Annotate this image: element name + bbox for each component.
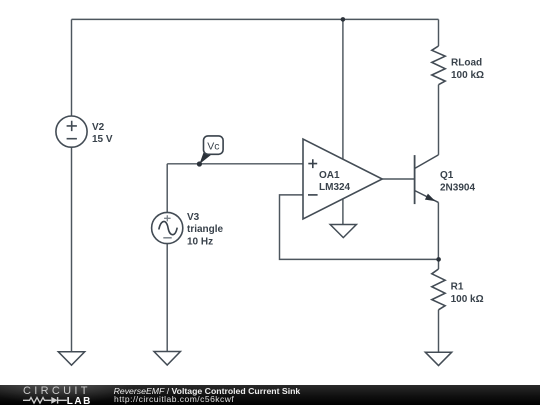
ground (V2) [58,352,84,365]
transistor Q1 emitter arrowhead [425,194,435,202]
wire op-amp V+ supply drop [342,19,344,159]
svg-text:RLoad: RLoad [451,58,482,69]
ground (V3) [154,352,180,366]
label Q1 2N3904 [440,170,475,193]
node Vc flag tail [199,151,211,165]
wire R1 bottom lead [438,310,440,352]
svg-text:LM324: LM324 [319,182,351,193]
wire V2 top lead [71,19,73,116]
label RLoad 100 kOhm [451,58,484,82]
svg-text:R1: R1 [451,282,464,293]
wire V2 bottom lead [71,147,73,351]
attribution line 2 [114,395,234,404]
svg-text:15 V: 15 V [92,134,113,145]
svg-text:triangle: triangle [187,224,224,235]
wire top horizontal rail [72,18,439,20]
transistor Q1 base bar [414,155,416,204]
voltage source V2 [56,116,87,147]
ground (R1) [425,352,451,365]
svg-text:V2: V2 [92,122,105,133]
node Vc flag box [204,136,224,154]
transistor Q1 collector stroke [415,155,439,169]
wire node Vc horizontal to op-amp + input [167,163,303,165]
wire R1 top lead [438,259,440,269]
ground (op-amp V-) [330,225,356,238]
CircuitLab logo wordmark CIRCUIT [23,385,91,397]
wire V3 bottom lead [166,244,168,352]
label OA1 LM324 [319,170,351,193]
wire op-amp output to Q1 base [382,178,414,180]
svg-text:2N3904: 2N3904 [440,182,475,193]
transistor Q1 emitter stroke [415,191,439,203]
wire RLoad bottom lead to Q1 collector [438,85,440,155]
svg-text:OA1: OA1 [319,170,340,181]
label V2 15 V [92,122,113,145]
voltage source V3 (triangle source) [152,212,183,243]
svg-text:V3: V3 [187,212,200,223]
footer attribution bar [0,385,540,405]
wire V3 top lead [166,164,168,213]
label V3 triangle 10 Hz [187,212,224,248]
CircuitLab logo wordmark LAB [67,396,92,405]
op-amp OA1 triangle [303,139,382,219]
junction dot top rail [341,17,346,22]
resistor R1 zigzag [432,269,445,310]
svg-text:100 kΩ: 100 kΩ [451,70,484,81]
wire feedback from R1 top to op-amp inverting input [280,195,439,260]
resistor RLoad zigzag [432,46,445,85]
V3 polarity + [164,215,171,221]
svg-text:100 kΩ: 100 kΩ [451,294,484,305]
svg-text:Q1: Q1 [440,170,454,181]
op-amp - input marker [308,194,318,196]
V3 polarity - [163,237,171,239]
V3 sine glyph [159,221,177,234]
wire Q1 emitter down lead [437,202,439,259]
svg-text:10 Hz: 10 Hz [187,236,213,247]
CircuitLab logo squiggle (resistor + diode) [22,395,70,405]
label R1 100 kOhm [451,282,484,305]
op-amp + input marker [308,159,317,168]
node Vc attach dot [197,161,202,166]
wire op-amp V- to ground [342,198,344,224]
svg-text:Vc: Vc [207,140,219,152]
junction node at R1 top [436,257,441,262]
attribution line 1 [114,387,301,397]
wire RLoad top lead [438,19,440,46]
